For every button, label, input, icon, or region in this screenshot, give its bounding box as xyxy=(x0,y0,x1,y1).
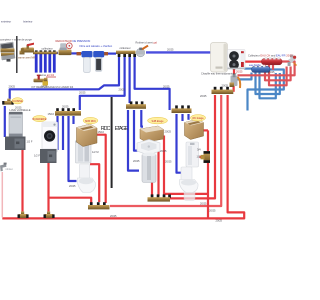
label 20/25 vanity etage xyxy=(165,129,172,133)
outdoor faucet xyxy=(0,163,7,172)
svg-text:20/25: 20/25 xyxy=(119,87,126,91)
label chauffe eau xyxy=(201,71,237,75)
kitchen feed tee xyxy=(2,99,14,105)
label 1/2 shower rdc xyxy=(92,150,99,154)
wire manifold3 drop to shower tray xyxy=(134,110,138,151)
wire manifold5 drop2 to RDC manifold6 xyxy=(110,95,221,206)
filter housing 2 carbon xyxy=(93,51,104,71)
label vanne arret xyxy=(18,57,36,60)
svg-text:20/25: 20/25 xyxy=(165,129,172,133)
svg-text:collecteur: collecteur xyxy=(120,46,131,50)
label 20/25 main xyxy=(167,47,174,51)
wire red collector U loop r2 xyxy=(265,65,291,81)
pressure reducer with gauge xyxy=(59,43,73,55)
svg-text:RDC: RDC xyxy=(101,126,111,132)
laundry utility cabinet xyxy=(40,149,57,163)
label sdb etage xyxy=(148,117,168,124)
wire manifold5 drop1 to etage manifold7 xyxy=(170,95,215,198)
manifold2 after filters xyxy=(116,51,136,57)
wire manifold3 drop to vanity etage xyxy=(141,110,143,127)
wire main cold line valve3 to water heater xyxy=(146,51,211,53)
label collecteur1 xyxy=(42,46,53,50)
label 20/25 toilet etage xyxy=(165,159,172,163)
label 20/25 kit run xyxy=(41,85,48,89)
svg-text:1/2 M: 1/2 M xyxy=(92,150,99,154)
wall line exterior/interior xyxy=(16,36,18,73)
label eau froide xyxy=(249,63,261,67)
filter housing 1 sediment xyxy=(82,51,93,72)
label 20/25 left run xyxy=(9,85,16,89)
svg-text:20/25: 20/25 xyxy=(160,149,167,153)
svg-text:KIT REMPLISSAGE M A LAVER 3/4: KIT REMPLISSAGE M A LAVER 3/4 xyxy=(32,85,74,89)
label 20/25 drop corner xyxy=(119,87,126,91)
svg-text:20/25: 20/25 xyxy=(79,91,86,95)
label buanderie xyxy=(33,116,47,122)
filling kit below manifold1 xyxy=(34,75,49,86)
label 20/25 manifold7 out xyxy=(200,202,207,206)
label robinet exterieur xyxy=(6,168,13,171)
label 20/25 manifold4 feed xyxy=(163,85,170,89)
dishwasher xyxy=(9,112,23,137)
svg-text:15/16: 15/16 xyxy=(48,112,55,116)
wire blue collector U loop b2 xyxy=(256,73,280,95)
svg-text:20/25: 20/25 xyxy=(222,83,229,87)
label 20/25 bottom xyxy=(216,219,223,223)
manifold6 RDC hot collector xyxy=(88,202,110,209)
label exterieur xyxy=(1,20,11,24)
cistern wc etage xyxy=(186,142,199,167)
svg-text:vanne att 3/4: vanne att 3/4 xyxy=(39,73,55,77)
svg-text:20/25: 20/25 xyxy=(62,104,69,108)
svg-text:REDUCTEUR DE PRESSION: REDUCTEUR DE PRESSION xyxy=(56,39,91,43)
manifold4 wc etage xyxy=(172,105,192,113)
label 20/25 shower etage xyxy=(160,149,167,153)
label wc etage xyxy=(190,115,205,121)
heat pump isolation valve + flex xyxy=(230,74,241,88)
wire red collector U loop r3 xyxy=(269,65,287,86)
label kit remplissage bottom xyxy=(32,85,74,89)
label robinet general xyxy=(136,41,158,45)
manifold1 tees on main line xyxy=(33,50,58,54)
svg-text:20/25: 20/25 xyxy=(133,159,140,163)
vanity cube RDC xyxy=(77,124,98,147)
brass elbow after wall xyxy=(20,51,25,55)
svg-text:Filtre anti calcaire + charbon: Filtre anti calcaire + charbon xyxy=(80,44,113,48)
manifold7 sdb etage hot xyxy=(148,194,171,201)
wire blue collector outer loop xyxy=(248,70,284,111)
svg-text:20/25: 20/25 xyxy=(216,219,223,223)
label kit red underline xyxy=(46,76,56,78)
label liaison pump xyxy=(236,70,243,74)
label sdb rdc xyxy=(83,117,98,123)
shutoff valve3 orange lever xyxy=(136,45,149,57)
water meter box xyxy=(0,42,15,62)
wire vanity RDC to manifold6 xyxy=(93,135,106,203)
label 1/2 laundry box xyxy=(34,154,40,158)
toilet etage xyxy=(180,167,199,193)
label lave vaisselle xyxy=(10,108,31,112)
thermostatic mixing valve icon xyxy=(288,55,297,66)
svg-text:SDB RDC: SDB RDC xyxy=(85,120,96,123)
svg-text:20/25: 20/25 xyxy=(167,47,174,51)
wire laundry drop to washer xyxy=(62,116,64,150)
label RDC xyxy=(101,126,111,132)
label 15/16 vanity rdc xyxy=(98,130,105,134)
bottom line tee kitchen xyxy=(18,211,29,218)
label 20/25 manifold6 out xyxy=(209,209,216,213)
label eau chaude loop xyxy=(268,70,275,74)
svg-text:20/25: 20/25 xyxy=(165,159,172,163)
label ETAGE xyxy=(115,126,129,132)
svg-text:CUISINE: CUISINE xyxy=(12,99,23,103)
wire wc etage riser xyxy=(207,130,209,218)
wire hot main: manifold5 drop3 to bottom distribution line xyxy=(2,95,244,218)
small cylinder heater etage xyxy=(184,185,196,200)
wire main cold line valve to manifold1 xyxy=(33,52,58,54)
wire red collector drop stub xyxy=(272,65,274,70)
cold distribution wires xyxy=(5,57,284,181)
wire sdb etage line to x208 riser xyxy=(164,136,208,194)
laundry manifold xyxy=(55,108,81,115)
toilet RDC xyxy=(78,164,96,193)
label 1/2 kitchen box xyxy=(27,140,33,144)
svg-text:exterieur: exterieur xyxy=(1,20,11,24)
wire blue collector U loop b3 xyxy=(260,73,276,99)
kitchen sink cabinet xyxy=(5,137,26,151)
shower cabin RDC xyxy=(76,141,92,164)
svg-text:1/2 F: 1/2 F xyxy=(27,140,33,144)
svg-text:compteur + vanne de purge: compteur + vanne de purge xyxy=(0,38,32,42)
wire heat pump to network elbow xyxy=(233,85,235,92)
wire kitchen sink hot drop xyxy=(21,150,23,214)
wire manifold4 drop to toilet etage xyxy=(177,114,182,173)
label 20/25 manifold5 xyxy=(222,83,229,87)
label 20/25 column etage xyxy=(133,159,140,163)
wire red collector outer loop to heat pump xyxy=(238,62,295,76)
shower column sdb etage xyxy=(142,153,156,183)
svg-text:20/25: 20/25 xyxy=(15,106,22,110)
svg-text:20/25: 20/25 xyxy=(69,184,76,188)
washing machine xyxy=(42,122,58,152)
label compteur xyxy=(0,38,32,42)
brass couplers at filters xyxy=(77,52,109,55)
svg-text:Robinet d arret gal: Robinet d arret gal xyxy=(136,41,158,45)
vanity plank sdb etage xyxy=(140,126,164,142)
label 20/25 laundry manifold xyxy=(62,104,69,108)
label 20/25 loop xyxy=(200,94,207,98)
svg-text:ETAGE: ETAGE xyxy=(115,126,129,132)
svg-text:20/25: 20/25 xyxy=(209,209,216,213)
svg-text:Interieur: Interieur xyxy=(23,20,33,24)
wire main cold line reducer to filters xyxy=(71,52,82,54)
wire heat pump down pipe xyxy=(233,68,235,74)
svg-text:3/4: 3/4 xyxy=(197,148,201,152)
label 3/4 cistern xyxy=(197,148,201,152)
thermodynamic water heater xyxy=(211,43,228,73)
wire shower RDC to manifold6 xyxy=(90,164,99,202)
manifold1 drops (5 waiting stubs) xyxy=(36,54,54,73)
floor divider RDC/ETAGE xyxy=(111,97,113,188)
svg-text:1/2 F: 1/2 F xyxy=(34,154,40,158)
svg-text:robinet: robinet xyxy=(6,168,13,171)
wire kitchen tee down to sink cabinet xyxy=(4,106,6,137)
label 20/25 bottom left xyxy=(110,214,117,218)
label 1/2 cistern etage xyxy=(197,154,201,158)
wire manifold2 drop2 to laundry manifold feed xyxy=(80,57,125,110)
wire laundry branch to manifold6 xyxy=(49,198,92,203)
blue collector bar xyxy=(252,65,271,73)
svg-text:collecteur: collecteur xyxy=(42,46,53,50)
svg-text:20/25: 20/25 xyxy=(200,94,207,98)
label interieur xyxy=(23,20,33,24)
manifold3 sdb etage xyxy=(126,101,146,108)
label cuisine xyxy=(12,98,23,104)
svg-text:20/25: 20/25 xyxy=(41,85,48,89)
svg-text:WC Etage: WC Etage xyxy=(192,117,204,120)
wire cold feed to blue collector xyxy=(244,67,252,69)
svg-text:eau froide: eau froide xyxy=(249,63,261,67)
label collecteur title xyxy=(248,53,293,57)
label collecteur2 xyxy=(120,46,131,50)
shower tray sdb etage xyxy=(137,140,160,156)
label toilet rdc xyxy=(69,184,76,188)
svg-text:vanne arret M/F: vanne arret M/F xyxy=(18,57,36,60)
wire sdb etage riser2 xyxy=(157,149,159,197)
wire manifold2 drop1 to kitchen long run xyxy=(10,57,119,99)
svg-text:20/25: 20/25 xyxy=(110,214,117,218)
wire main cold line filters to manifold2 xyxy=(104,52,116,54)
wire laundry drop to utility box xyxy=(56,116,58,150)
label 20/25 cuisine tee xyxy=(15,106,22,110)
svg-text:Collecteur EAU CH and EAU FR 2: Collecteur EAU CH and EAU FR 20/25 xyxy=(248,53,293,57)
label kit remplissage top xyxy=(39,73,55,77)
wire laundry drop to toilet RDC xyxy=(69,116,77,181)
svg-text:20/25: 20/25 xyxy=(200,202,207,206)
svg-text:BUANDERIE: BUANDERIE xyxy=(33,118,47,121)
cistern etage shutoff valve xyxy=(201,151,211,163)
manifold5 etage hot xyxy=(212,87,234,94)
label reducteur xyxy=(56,39,91,43)
wire cistern etage valve stub xyxy=(200,156,207,158)
svg-text:1/2: 1/2 xyxy=(197,154,201,158)
label 15/16 laundry xyxy=(48,112,55,116)
label filtres xyxy=(80,44,113,48)
wire manifold2 drop3 to bath manifold3 xyxy=(129,57,131,103)
wire laundry box hot drop xyxy=(47,163,49,214)
svg-text:SdB Etage: SdB Etage xyxy=(152,120,165,123)
wire hot feed to red collector xyxy=(244,60,262,62)
wire laundry drop to vanity RDC xyxy=(72,116,74,124)
wire manifold2 drop4 to wc etage manifold4 xyxy=(135,57,170,110)
vanity cube wc etage xyxy=(185,119,204,140)
svg-text:20/25: 20/25 xyxy=(9,85,16,89)
main shutoff valve with red lever xyxy=(21,43,34,53)
label 20/25 drop2 xyxy=(79,91,86,95)
wire manifold3 drop to shower column xyxy=(128,110,139,171)
wire outdoor faucet pale line xyxy=(1,172,3,217)
wire blue collector stub to heat pump xyxy=(238,73,252,80)
svg-text:Chauffe eau thermodynamique: Chauffe eau thermodynamique xyxy=(201,71,237,75)
svg-text:20/25: 20/25 xyxy=(236,70,243,74)
wire sdb etage riser1 xyxy=(151,170,153,196)
wire manifold4 drop to vanity wc etage xyxy=(187,114,189,120)
red collector bar xyxy=(262,57,283,65)
heat pump outdoor unit xyxy=(228,50,246,70)
svg-text:20/25: 20/25 xyxy=(268,70,275,74)
bottom line tee laundry xyxy=(44,211,55,218)
wire manifold4 drop stub xyxy=(181,114,183,121)
svg-text:20/25: 20/25 xyxy=(163,85,170,89)
wire vanity wc etage to riser xyxy=(202,129,209,131)
